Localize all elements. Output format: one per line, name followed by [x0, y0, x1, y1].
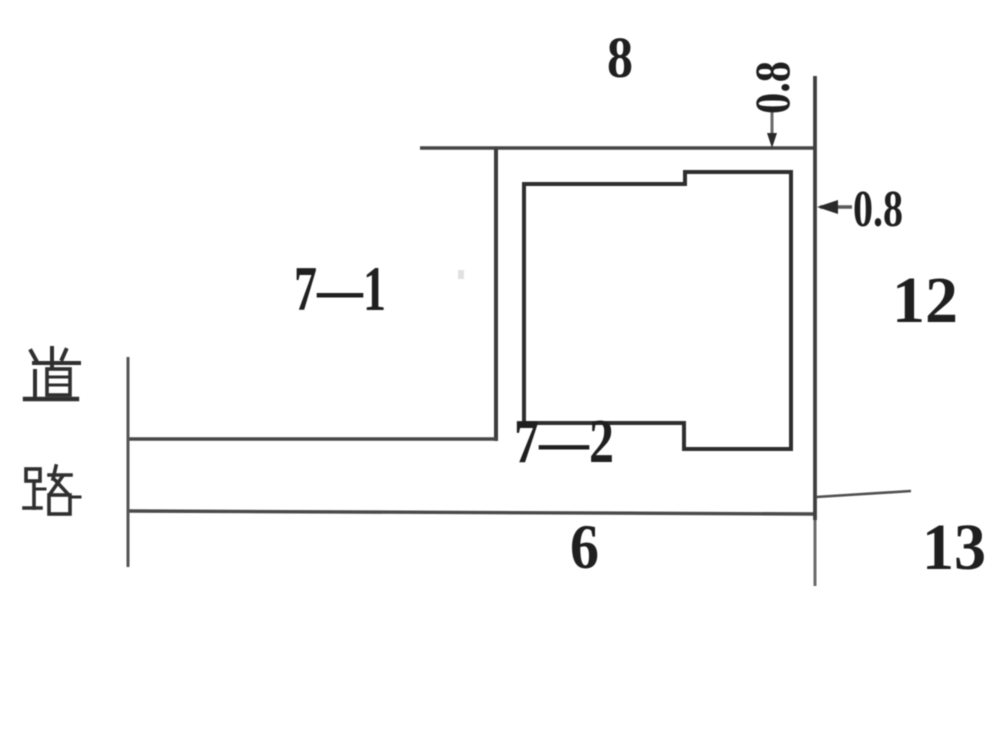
wire road lower edge	[128, 511, 816, 514]
wire slanted boundary toward plot 13	[816, 491, 911, 497]
wire top boundary horizontal line	[420, 146, 816, 150]
wire road left vertical	[127, 357, 130, 567]
kanji dou (road) hand drawn	[25, 348, 79, 399]
dimension arrow 0.8 top (down arrow)	[771, 112, 774, 144]
kanji ro (path) hand drawn	[24, 466, 80, 514]
svg-text:12: 12	[892, 264, 958, 337]
svg-text:7—2: 7—2	[514, 408, 614, 476]
dimension arrow 0.8 right (left arrow)	[820, 205, 852, 209]
wire road upper edge	[128, 437, 497, 440]
svg-text:6: 6	[570, 511, 599, 582]
svg-text:7—1: 7—1	[294, 253, 386, 324]
svg-text:0.8: 0.8	[744, 61, 800, 114]
faint smudge mark	[458, 270, 464, 279]
wire right boundary vertical	[813, 76, 817, 520]
svg-text:8: 8	[607, 25, 633, 90]
svg-text:13: 13	[922, 511, 986, 584]
wire left boundary of plot 7-1 vertical	[494, 148, 498, 441]
svg-text:0.8: 0.8	[853, 181, 903, 238]
building outline plot 7-2	[524, 172, 791, 449]
